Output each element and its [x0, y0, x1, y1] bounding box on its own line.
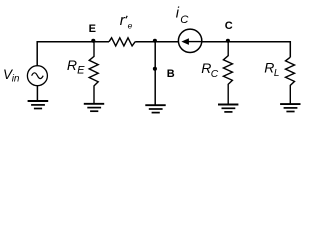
resistor RE (vertical zigzag): [89, 42, 98, 104]
wire Vin bottom lead: [36, 86, 38, 101]
svg-text:in: in: [12, 74, 20, 85]
ground (Vin): [28, 101, 49, 109]
ground (RC): [218, 105, 238, 112]
node B dot: [153, 67, 157, 71]
label RL: [264, 59, 279, 79]
svg-text:E: E: [77, 64, 85, 76]
resistor RC (vertical zigzag): [223, 42, 232, 105]
wire top rail right segment with corner to RL: [135, 42, 290, 58]
wire top rail left segment with corner to Vin: [37, 42, 109, 66]
wire B branch: [154, 42, 156, 105]
resistor r'e (horizontal zigzag): [109, 38, 135, 46]
node C junction dot: [226, 39, 230, 43]
sine symbol inside Vin: [32, 73, 44, 79]
label RC: [201, 60, 218, 80]
svg-text:C: C: [211, 69, 219, 80]
ground (RE): [84, 104, 104, 111]
svg-text:E: E: [89, 23, 96, 35]
svg-text:C: C: [180, 14, 189, 26]
arrow inside current source: [188, 41, 202, 43]
svg-text:R: R: [264, 59, 274, 75]
svg-text:e: e: [128, 21, 133, 31]
current source iC circle: [178, 29, 201, 52]
svg-text:L: L: [274, 68, 280, 79]
resistor RL (vertical zigzag): [286, 57, 295, 104]
label iC: [176, 6, 190, 26]
label Vin: [3, 67, 20, 85]
ground (RL): [280, 104, 300, 111]
voltage source Vin circle: [27, 66, 47, 86]
label RE: [67, 57, 85, 76]
ground (B): [145, 105, 165, 112]
node E junction dot: [91, 39, 95, 43]
label r'e: [120, 12, 133, 31]
svg-text:C: C: [225, 20, 233, 32]
svg-text:R: R: [67, 57, 77, 73]
svg-text:B: B: [167, 68, 175, 80]
node (junction r'e / B / current source): [153, 39, 157, 43]
